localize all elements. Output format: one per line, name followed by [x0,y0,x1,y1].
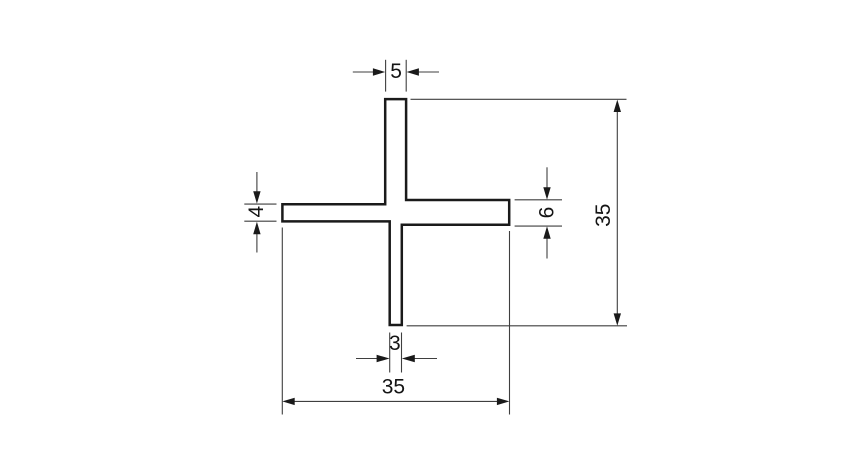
dimension 5: right arrow [418,71,439,73]
svg-text:5: 5 [390,60,402,83]
svg-text:35: 35 [592,204,615,227]
dimension 3: extension line right [401,333,403,373]
dimension 35 right: extension line top [411,98,627,100]
dimension 6: label (rotated) [535,207,558,219]
dimension 6: top arrow [546,167,548,188]
svg-text:3: 3 [389,332,401,355]
dimension 4: extension line top [244,203,276,205]
dimension 4: top arrow [256,172,258,193]
dimension 35 bottom: right arrowhead [497,398,509,405]
dimension 4: label (rotated) [245,205,268,217]
dimension 6: bottom arrow [546,238,548,259]
dimension 3: right arrow [414,358,437,360]
dimension 35 bottom: extension line right [509,231,511,415]
dimension 6: extension line top [515,199,562,201]
dimension 35 right: dimension line [616,110,618,315]
dimension 35 right: top arrowhead [614,100,621,112]
dimension 5: extension line left [385,60,387,92]
dimension 4: bottom arrow [256,233,258,253]
dimension 5: extension line right [405,60,407,92]
svg-text:4: 4 [245,205,268,217]
dimension 35 right: bottom arrowhead [614,313,621,325]
dimension 35 bottom: dimension line [294,400,498,402]
dimension 35 bottom: extension line left [281,228,283,415]
dimension 5: left arrow [353,71,374,73]
cross profile outline [282,99,509,325]
svg-text:35: 35 [382,376,405,399]
dimension 35 right: extension line bottom [407,325,627,327]
dimension 3: left arrow [356,358,379,360]
svg-text:6: 6 [535,207,558,219]
dimension 3: extension line left [389,333,391,373]
dimension 35 bottom: left arrowhead [282,398,294,405]
dimension 6: extension line bottom [515,225,562,227]
dimension 4: extension line bottom [244,220,276,222]
dimension 35 right: label (rotated) [592,204,615,227]
